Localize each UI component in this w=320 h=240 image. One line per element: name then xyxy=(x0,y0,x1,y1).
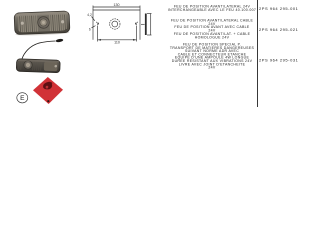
svg-text:2PS 964 295-031: 2PS 964 295-031 xyxy=(259,57,299,62)
side view bar xyxy=(145,14,147,36)
bottom dimension line xyxy=(98,39,137,41)
description block 1 xyxy=(168,4,256,11)
leader arrow for 4,2 xyxy=(92,17,95,21)
right mounting hole mark xyxy=(135,22,137,25)
svg-text:6: 6 xyxy=(89,28,91,32)
leader arrow for 6 xyxy=(92,26,96,28)
description block 3 xyxy=(170,43,255,70)
dimension line top xyxy=(93,6,140,8)
svg-text:2PS 964 295-001: 2PS 964 295-001 xyxy=(259,6,299,11)
svg-text:110: 110 xyxy=(114,41,120,45)
svg-text:24V: 24V xyxy=(208,66,216,70)
vertical separator xyxy=(257,0,259,107)
svg-text:E: E xyxy=(20,95,25,102)
description block 2 xyxy=(171,18,254,39)
technical drawing xyxy=(92,6,152,42)
svg-text:2PS 964 295-021: 2PS 964 295-021 xyxy=(259,27,299,32)
part numbers xyxy=(259,6,299,63)
photo: marker lamp (top) xyxy=(14,11,70,36)
svg-text:INTERCHANGEABLE AVEC LE FEU 40: INTERCHANGEABLE AVEC LE FEU 40.100.007 xyxy=(168,8,256,12)
svg-text:HOMOLOGUE 24V: HOMOLOGUE 24V xyxy=(195,35,230,39)
svg-text:4,2: 4,2 xyxy=(87,13,92,17)
E approval mark xyxy=(17,93,28,103)
left mounting hole mark xyxy=(96,22,98,25)
ADR hazard diamond xyxy=(33,77,63,104)
body outline (open bottom) xyxy=(93,10,140,40)
cable xyxy=(22,41,56,59)
centre lens circles xyxy=(110,19,120,29)
photo: lamp with cable (bottom) xyxy=(16,38,63,72)
svg-text:130: 130 xyxy=(114,3,120,7)
connector xyxy=(55,38,63,42)
